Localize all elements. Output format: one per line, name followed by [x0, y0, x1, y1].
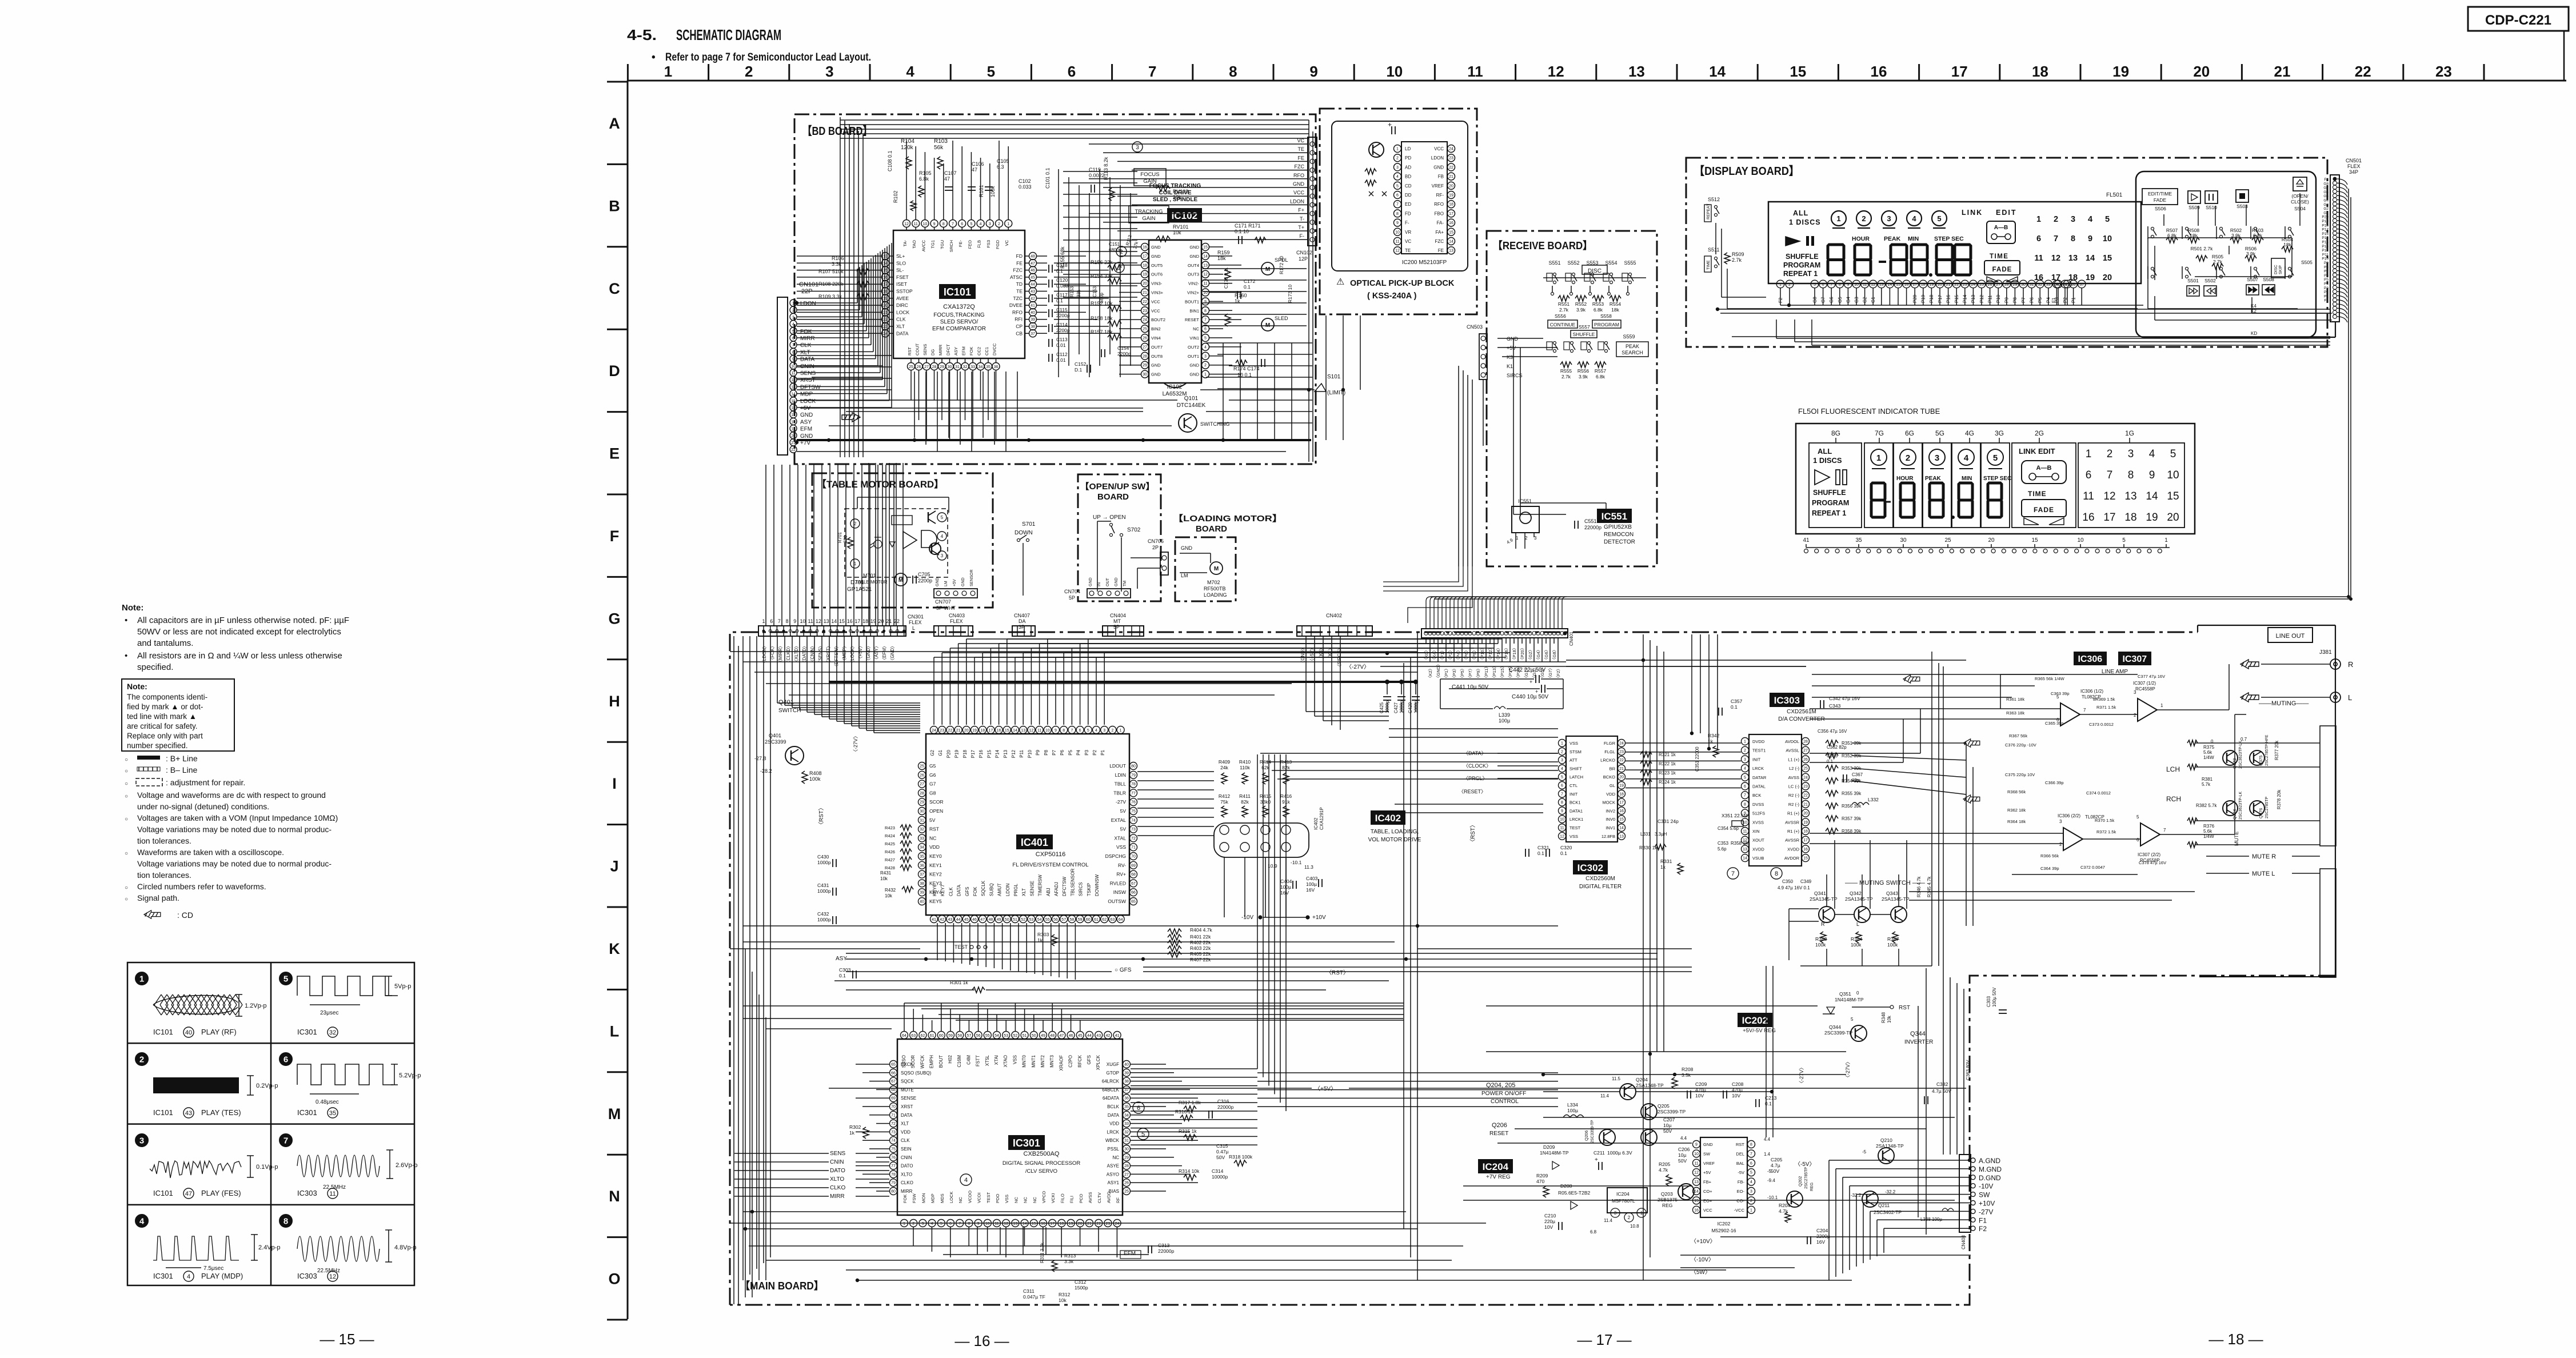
svg-text:INVERTER: INVERTER — [1904, 1039, 1933, 1045]
svg-text:1: 1 — [664, 63, 672, 80]
svg-text:Replace only with part: Replace only with part — [127, 732, 203, 740]
svg-text:65: 65 — [891, 1063, 896, 1067]
svg-text:R423: R423 — [885, 825, 895, 830]
svg-text:5: 5 — [987, 63, 995, 80]
svg-text:SENSOR: SENSOR — [970, 569, 974, 586]
svg-text:73: 73 — [891, 1131, 896, 1135]
svg-text:59: 59 — [1078, 918, 1083, 922]
svg-text:21: 21 — [2274, 63, 2291, 80]
svg-text:R330 1k: R330 1k — [1639, 845, 1658, 850]
svg-text:〈PRGL〉: 〈PRGL〉 — [1463, 776, 1488, 781]
svg-text:16: 16 — [847, 618, 853, 624]
svg-text:16: 16 — [997, 729, 1001, 733]
svg-text:-27V: -27V — [1116, 799, 1126, 805]
wire bus main board top horizontals — [730, 651, 1417, 652]
svg-text:19: 19 — [2112, 63, 2129, 80]
svg-text:20: 20 — [1449, 184, 1453, 188]
svg-text:67: 67 — [891, 1080, 896, 1084]
opamp IC307 1/2 top — [2138, 698, 2157, 721]
svg-text:C172: C172 — [1244, 278, 1256, 284]
svg-text:3: 3 — [792, 315, 794, 319]
svg-text:CONTINUE: CONTINUE — [1550, 322, 1576, 327]
svg-text:38: 38 — [920, 882, 924, 886]
svg-text:+10V: +10V — [1312, 914, 1326, 921]
svg-text:LA6532M: LA6532M — [1163, 391, 1187, 397]
svg-text:20: 20 — [2103, 273, 2112, 282]
svg-text:PD: PD — [1405, 155, 1411, 161]
svg-text:P5: P5 — [1068, 749, 1073, 755]
svg-text:DATA: DATA — [1108, 1113, 1120, 1118]
svg-text:IC202: IC202 — [1718, 1221, 1731, 1227]
svg-text:18: 18 — [2124, 512, 2136, 524]
svg-text:MNT3: MNT3 — [1049, 1055, 1055, 1067]
svg-text:LCH: LCH — [2166, 765, 2180, 773]
svg-text:VIN3+: VIN3+ — [1151, 290, 1164, 295]
svg-text:8: 8 — [1561, 801, 1563, 805]
svg-text:— 16 —: — 16 — — [954, 1332, 1009, 1349]
svg-text:WBCK: WBCK — [1105, 1138, 1120, 1143]
svg-text:BD: BD — [1405, 174, 1411, 179]
svg-text:G1: G1 — [2323, 211, 2329, 215]
wire bus BD board down to CN301 — [765, 465, 766, 626]
svg-text:G6: G6 — [929, 772, 936, 778]
svg-text:52: 52 — [1021, 918, 1025, 922]
svg-text:57: 57 — [1061, 918, 1066, 922]
svg-text:23: 23 — [1803, 785, 1808, 789]
svg-text:DIGITAL FILTER: DIGITAL FILTER — [1579, 884, 1622, 890]
svg-text:31: 31 — [955, 365, 960, 369]
svg-text:VSS: VSS — [1569, 834, 1578, 839]
svg-text:Q342: Q342 — [1850, 890, 1862, 896]
svg-text:SHUFFLE: SHUFFLE — [1786, 253, 1819, 261]
svg-text:66: 66 — [1131, 891, 1136, 895]
svg-text:F+: F+ — [1298, 207, 1304, 213]
svg-text:10000p: 10000p — [1212, 1174, 1228, 1180]
svg-text:100k: 100k — [1815, 942, 1826, 948]
svg-text:R372 1.5k: R372 1.5k — [2096, 829, 2116, 834]
SLED motor symbol — [1261, 318, 1274, 331]
svg-text:C357: C357 — [1731, 698, 1743, 704]
svg-text:20: 20 — [1988, 537, 1995, 544]
svg-text:IC301: IC301 — [297, 1108, 317, 1117]
svg-text:ALL: ALL — [1818, 447, 1832, 456]
svg-text:〈P20〉: 〈P20〉 — [1520, 646, 1525, 662]
svg-text:TIME: TIME — [1990, 253, 2008, 260]
svg-text:C431: C431 — [817, 882, 829, 888]
junction dots main buses — [924, 957, 928, 961]
svg-text:2SA1345-TP: 2SA1345-TP — [1845, 896, 1873, 902]
svg-text:FOK: FOK — [800, 329, 812, 335]
svg-text:FE: FE — [1438, 248, 1444, 253]
svg-text:P20: P20 — [2322, 215, 2329, 219]
svg-text:R208: R208 — [1682, 1067, 1694, 1072]
svg-text:50V: 50V — [1771, 1168, 1779, 1174]
svg-text:GND: GND — [936, 577, 940, 586]
svg-text:27: 27 — [1996, 283, 2000, 287]
svg-text:D.1: D.1 — [1075, 367, 1083, 373]
svg-text:27: 27 — [1124, 1173, 1129, 1177]
svg-text:C112: C112 — [1056, 352, 1068, 357]
svg-text:TIME: TIME — [2028, 490, 2047, 498]
wire bus muting to mute rails — [1909, 891, 2195, 892]
svg-text:5.6k: 5.6k — [2203, 750, 2212, 755]
svg-text:9: 9 — [1695, 1143, 1698, 1147]
svg-text:2: 2 — [1628, 1215, 1631, 1220]
svg-text:S502: S502 — [2204, 278, 2216, 283]
svg-text:100µ: 100µ — [1499, 718, 1510, 724]
IC204 regulator package — [1607, 1188, 1647, 1213]
wire bus CN402 drop verticals — [1305, 636, 1307, 712]
svg-text:R316 1k: R316 1k — [1175, 1109, 1193, 1115]
IC306 label tag — [2074, 652, 2107, 665]
svg-text:RC4558P: RC4558P — [2135, 686, 2155, 692]
svg-text:R364 18k: R364 18k — [2007, 819, 2026, 824]
svg-text:32: 32 — [920, 828, 924, 832]
svg-text:FSW: FSW — [912, 1193, 917, 1203]
svg-text:70: 70 — [891, 1105, 896, 1109]
IC302 right pins — [1618, 740, 1626, 747]
svg-text:47: 47 — [944, 176, 950, 182]
svg-text:CLK: CLK — [948, 887, 953, 896]
svg-text:5: 5 — [2105, 215, 2110, 224]
svg-text:S558: S558 — [1600, 313, 1612, 319]
svg-text:1000p: 1000p — [817, 888, 831, 894]
svg-text:0.1 10: 0.1 10 — [1235, 229, 1249, 234]
svg-text:69: 69 — [1131, 864, 1136, 868]
svg-text:INV2: INV2 — [1605, 808, 1615, 813]
wire stubs IC301 bottom pins down — [913, 1227, 914, 1246]
svg-text:5.7k: 5.7k — [2202, 782, 2211, 787]
svg-text:11.4: 11.4 — [1600, 1093, 1609, 1099]
svg-text:VDD: VDD — [929, 844, 940, 850]
svg-text:21: 21 — [1087, 1222, 1092, 1226]
svg-text:19: 19 — [2146, 512, 2158, 524]
svg-text:CLK: CLK — [901, 1138, 910, 1143]
svg-text:100µ: 100µ — [1306, 881, 1317, 887]
svg-text:SHUFFLE: SHUFFLE — [1573, 331, 1595, 337]
wire bus BD board right edge verticals — [1308, 120, 1309, 462]
svg-text:36: 36 — [2071, 283, 2076, 287]
svg-text:COIL DRIVE: COIL DRIVE — [1159, 190, 1191, 196]
svg-text:7: 7 — [2163, 828, 2166, 833]
svg-text:FADE: FADE — [2034, 506, 2054, 514]
svg-text:TBLSENSOR: TBLSENSOR — [1070, 868, 1075, 896]
svg-text:TBLL: TBLL — [1115, 781, 1127, 787]
svg-text:SENS: SENS — [922, 344, 928, 356]
svg-text:SENS: SENS — [800, 370, 816, 377]
svg-text:2: 2 — [2059, 842, 2062, 847]
svg-text:9: 9 — [792, 358, 794, 362]
svg-text:7: 7 — [1396, 203, 1399, 207]
M702 loading motor — [1210, 562, 1223, 574]
svg-text:S557: S557 — [1579, 324, 1590, 330]
svg-text:C115: C115 — [1056, 307, 1068, 313]
svg-text:+7V REG: +7V REG — [1486, 1174, 1511, 1180]
svg-text:UP → OPEN: UP → OPEN — [1093, 514, 1126, 521]
CN705 connector 2P — [1160, 552, 1168, 575]
svg-text:16: 16 — [1904, 283, 1909, 287]
IC402 label tag — [1371, 810, 1405, 825]
svg-text:GND: GND — [1089, 577, 1093, 586]
svg-text:22: 22 — [1619, 758, 1624, 762]
svg-text:17: 17 — [1619, 801, 1624, 805]
svg-text:R155 68k: R155 68k — [1060, 246, 1065, 269]
svg-text:C213: C213 — [1765, 1095, 1777, 1101]
svg-text:2: 2 — [2054, 215, 2058, 224]
svg-text:TAO: TAO — [912, 240, 917, 249]
svg-text:The components identi-: The components identi- — [127, 693, 207, 701]
svg-text:11: 11 — [329, 1191, 336, 1197]
svg-text:75: 75 — [891, 1148, 896, 1152]
svg-text:13: 13 — [2068, 254, 2078, 263]
svg-text:6: 6 — [1822, 283, 1824, 287]
svg-text:12P: 12P — [1299, 256, 1308, 262]
svg-text:15: 15 — [883, 269, 888, 273]
svg-text:5V: 5V — [1120, 826, 1127, 832]
svg-text:K4: K4 — [2251, 303, 2257, 309]
svg-text:R362 18k: R362 18k — [2007, 808, 2026, 813]
wire bus CN101 to IC101 — [797, 302, 857, 303]
svg-text:P17: P17 — [2322, 228, 2329, 232]
svg-text:6: 6 — [1068, 63, 1076, 80]
svg-text:XOUT: XOUT — [1752, 838, 1764, 843]
svg-text:IC303: IC303 — [1774, 695, 1800, 706]
svg-text:R427: R427 — [885, 857, 895, 862]
svg-text:41: 41 — [932, 918, 936, 922]
svg-text:FL DRIVE/SYSTEM CONTROL: FL DRIVE/SYSTEM CONTROL — [1012, 862, 1088, 868]
svg-text:CXA1372Q: CXA1372Q — [943, 303, 975, 310]
svg-text:XLTO: XLTO — [901, 1172, 912, 1177]
svg-text:4-5.: 4-5. — [627, 26, 657, 43]
svg-text:-10.1: -10.1 — [1291, 860, 1302, 865]
svg-text:SSTOP: SSTOP — [896, 289, 913, 294]
svg-text:A: A — [609, 115, 620, 132]
wire bus mid horizontals — [730, 948, 920, 949]
wire bus IC101-IC102 verticals — [1058, 169, 1059, 377]
svg-text:REMOCON: REMOCON — [1604, 532, 1634, 538]
wire bus IC301 top verticals — [904, 1003, 905, 1031]
D701 LED photodiode — [870, 534, 881, 548]
svg-text:GND: GND — [961, 577, 965, 586]
play button icon S509 — [2188, 191, 2200, 203]
waveform 2 PLAY TES noise band — [135, 1053, 148, 1065]
svg-text:XPLCK: XPLCK — [1096, 1055, 1101, 1070]
svg-text:18k: 18k — [1611, 307, 1619, 313]
svg-text:76: 76 — [891, 1156, 896, 1160]
svg-text:4: 4 — [906, 63, 914, 80]
svg-text:RF-: RF- — [1436, 193, 1444, 198]
C430 C431 C432 capacitors — [832, 859, 833, 867]
svg-text:〈P14〉: 〈P14〉 — [1496, 646, 1501, 662]
svg-text:KEY2: KEY2 — [929, 872, 942, 877]
svg-text:7.5μsec: 7.5μsec — [203, 1265, 223, 1272]
svg-text:R172 10: R172 10 — [1279, 256, 1284, 274]
svg-text:GND: GND — [1189, 363, 1199, 368]
svg-text:GP1A521: GP1A521 — [847, 586, 872, 593]
svg-text:GND: GND — [800, 433, 813, 440]
svg-text:11: 11 — [791, 372, 795, 376]
wire to jack R — [2261, 664, 2330, 665]
svg-text:9: 9 — [1055, 729, 1057, 733]
svg-text:R113 8.2k: R113 8.2k — [1103, 157, 1109, 180]
tube minus and dot — [1884, 501, 1891, 503]
svg-text:7: 7 — [283, 1136, 288, 1146]
svg-text:1: 1 — [1876, 453, 1881, 463]
wire bus receive board — [1497, 338, 1543, 339]
svg-text:R173 10: R173 10 — [1287, 285, 1293, 303]
wire bus IC303 top verticals — [1691, 634, 1692, 733]
svg-text:F2: F2 — [2324, 178, 2329, 182]
svg-text:EO-: EO- — [1737, 1189, 1745, 1194]
svg-text:R313: R313 — [1064, 1253, 1076, 1259]
IC307 label tag — [2118, 652, 2151, 665]
svg-text:MDP: MDP — [800, 392, 813, 398]
svg-text:4: 4 — [941, 534, 944, 539]
wire bus SENS CNIN DATO XLTO CLKO MIRR from left edge — [734, 1153, 829, 1154]
svg-text:9: 9 — [1204, 300, 1207, 304]
line amp wires — [1966, 708, 2060, 709]
svg-text:4: 4 — [1561, 767, 1563, 771]
svg-text:21: 21 — [1449, 175, 1453, 179]
svg-text:〈P9〉: 〈P9〉 — [1476, 666, 1481, 680]
svg-text:14: 14 — [1619, 826, 1624, 830]
switch row 2 — [1553, 342, 1556, 345]
svg-text:C363 39p: C363 39p — [2051, 691, 2070, 696]
svg-text:30: 30 — [2021, 283, 2026, 287]
svg-text:30: 30 — [1124, 1148, 1129, 1152]
svg-text:C378 47µ 16V: C378 47µ 16V — [2139, 860, 2166, 865]
svg-text:C356 47µ 16V: C356 47µ 16V — [1818, 729, 1847, 734]
svg-text:19: 19 — [1930, 283, 1934, 287]
svg-text:LDON: LDON — [1005, 884, 1011, 896]
svg-text:Q343: Q343 — [1886, 890, 1898, 896]
IC202 left pins — [1693, 1141, 1700, 1148]
svg-text:— 15 —: — 15 — — [319, 1331, 374, 1348]
svg-text:10: 10 — [800, 618, 805, 624]
svg-text:FD: FD — [1016, 253, 1023, 259]
svg-text:ALL: ALL — [1793, 209, 1808, 217]
svg-text:R509: R509 — [1732, 251, 1744, 257]
svg-text:S555: S555 — [1624, 260, 1636, 266]
svg-text:J: J — [610, 858, 618, 875]
svg-text:〈-27V〉: 〈-27V〉 — [1799, 1065, 1804, 1086]
svg-text:2: 2 — [1788, 283, 1791, 287]
svg-text:18: 18 — [1449, 203, 1453, 207]
svg-text:FADE: FADE — [1992, 266, 2012, 273]
svg-text:21: 21 — [1946, 283, 1951, 287]
svg-text:AVSSL: AVSSL — [1786, 748, 1799, 753]
svg-text:5: 5 — [283, 974, 288, 984]
svg-text:TBLR: TBLR — [1113, 790, 1126, 796]
wire bus IC301 right to IC302 — [1131, 1068, 1257, 1069]
svg-text:TD: TD — [1016, 281, 1023, 287]
svg-text:8: 8 — [2128, 469, 2134, 481]
svg-text:M702: M702 — [1207, 580, 1220, 585]
svg-text:F1: F1 — [1979, 1216, 1987, 1224]
svg-text:G4: G4 — [2323, 199, 2329, 203]
power wires top — [1543, 1074, 1846, 1075]
svg-text:R553: R553 — [1592, 301, 1604, 307]
svg-text:10µ: 10µ — [1663, 1123, 1671, 1128]
svg-text:47: 47 — [1060, 1034, 1064, 1038]
IC101 right side capacitors C118 C117 C115 C114 C113 C112 — [1048, 265, 1049, 273]
svg-text:FL501: FL501 — [2106, 192, 2123, 198]
svg-text:PLAY (RF): PLAY (RF) — [201, 1028, 237, 1036]
svg-text:100µ: 100µ — [1567, 1108, 1578, 1113]
svg-text:FZC: FZC — [1435, 239, 1444, 244]
signal arrow EFM — [842, 413, 860, 422]
svg-text:L332: L332 — [1868, 797, 1879, 802]
svg-text:41: 41 — [1803, 537, 1810, 544]
svg-text:8: 8 — [1744, 802, 1746, 806]
svg-text:GND: GND — [1181, 545, 1193, 551]
IC202 label tag — [1738, 1013, 1772, 1027]
svg-text:-10V: -10V — [1241, 914, 1253, 921]
svg-text:18: 18 — [980, 729, 985, 733]
svg-text:73: 73 — [1131, 828, 1136, 832]
svg-text:7: 7 — [1071, 729, 1073, 733]
svg-text:SW: SW — [1703, 1151, 1711, 1156]
svg-text:P1: P1 — [1100, 749, 1105, 755]
svg-text:26: 26 — [1803, 758, 1808, 762]
svg-text:GND: GND — [1189, 254, 1199, 259]
svg-text:21: 21 — [1803, 802, 1808, 806]
svg-text:GND: GND — [1189, 245, 1199, 250]
svg-text:19: 19 — [1143, 273, 1147, 277]
svg-text:GND: GND — [1703, 1142, 1713, 1147]
svg-text:16V: 16V — [1306, 887, 1315, 893]
svg-text:GND: GND — [1293, 181, 1305, 187]
svg-text:40: 40 — [920, 900, 924, 904]
svg-text:〈K2〉: 〈K2〉 — [1428, 666, 1433, 680]
svg-text:9: 9 — [1396, 221, 1399, 225]
svg-text:— 18 —: — 18 — — [2208, 1331, 2263, 1348]
svg-text:0.1: 0.1 — [1731, 704, 1738, 710]
svg-text:3: 3 — [139, 1136, 144, 1146]
ff rew buttons S507 S508 icons — [2246, 285, 2259, 295]
svg-text:10: 10 — [2103, 234, 2112, 243]
svg-text:17: 17 — [2103, 512, 2115, 524]
svg-text:L331: L331 — [1640, 832, 1651, 837]
svg-text:63: 63 — [1111, 918, 1115, 922]
svg-text:〈XLTD〉: 〈XLTD〉 — [794, 644, 799, 664]
svg-text:C107: C107 — [944, 170, 957, 176]
svg-text:11.5: 11.5 — [1612, 1076, 1621, 1081]
svg-text:1000p: 1000p — [817, 917, 831, 922]
svg-text:5: 5 — [940, 1222, 942, 1226]
svg-text:18: 18 — [862, 618, 868, 624]
svg-text:2: 2 — [1906, 453, 1910, 463]
svg-text:C427: C427 — [1393, 702, 1399, 713]
svg-text:7: 7 — [1830, 283, 1832, 287]
svg-text:14: 14 — [1743, 857, 1747, 861]
svg-text:R357 39k: R357 39k — [1842, 816, 1862, 821]
svg-text:PLAY (MDP): PLAY (MDP) — [201, 1272, 243, 1280]
svg-text:0.1: 0.1 — [1244, 284, 1251, 290]
svg-text:〈P1〉: 〈P1〉 — [1444, 666, 1449, 680]
svg-text:R322 1k: R322 1k — [1659, 761, 1676, 766]
svg-text:5P WHT: 5P WHT — [936, 605, 956, 611]
svg-text:16: 16 — [791, 406, 796, 410]
svg-text:〈P2〉: 〈P2〉 — [1448, 648, 1453, 662]
svg-text:22000p: 22000p — [1158, 1248, 1175, 1254]
FL501 tube legend outline — [1796, 424, 2195, 534]
svg-text:C355: C355 — [1827, 753, 1838, 758]
svg-text:C374 0.0012: C374 0.0012 — [2086, 790, 2111, 796]
svg-text:C206: C206 — [1678, 1147, 1690, 1152]
svg-text:2SC2785TP: 2SC2785TP — [1804, 1167, 1808, 1189]
svg-text:46: 46 — [1031, 269, 1035, 273]
